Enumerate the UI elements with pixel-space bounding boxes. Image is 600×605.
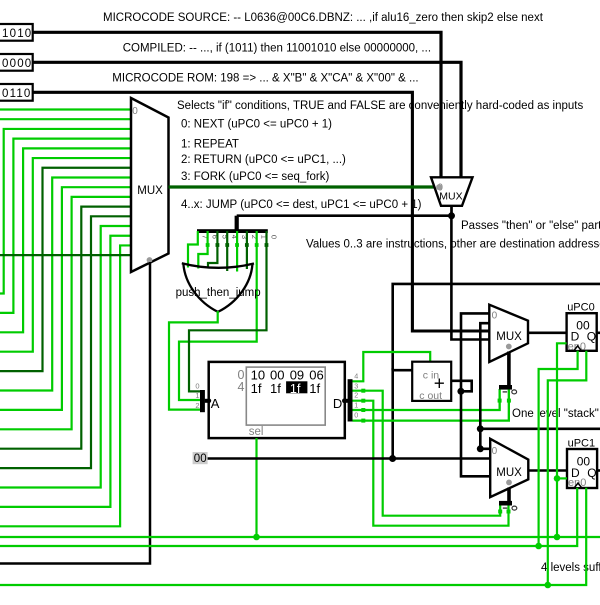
wire MUX1 input 13 (nested) xyxy=(0,236,131,507)
junction nub on bus drop 6 xyxy=(206,243,210,247)
wire uPC1.Q out xyxy=(597,469,600,472)
uPC1 clock triangle xyxy=(574,483,581,488)
junction dot incrementer output xyxy=(457,388,464,395)
box: microcode source bits 1010 xyxy=(0,24,33,41)
svg-text:2: RETURN (uPC0 <= uPC1, ...): 2: RETURN (uPC0 <= uPC1, ...) xyxy=(181,154,346,166)
wire uPC1.Q feedback vertical x480 xyxy=(480,323,490,449)
wire incrementer feed to D4 xyxy=(353,352,431,381)
long en0 line (y=537) xyxy=(0,536,600,538)
wire MUX1 select (black, to left edge bottom) xyxy=(0,262,150,564)
box: compiled bits 0000 xyxy=(0,54,33,71)
svg-text:Q: Q xyxy=(587,330,596,344)
wire MUX1 input 11 (nested) xyxy=(0,216,131,468)
wire MUX1 input 12 (nested) xyxy=(0,226,131,487)
junction nub on D wire xyxy=(361,399,365,403)
wire uPC+1 vertical x461: MUX3 in / MUX4 in xyxy=(461,313,490,476)
box: microcode ROM bits 0110 xyxy=(0,84,33,101)
nubs on MUX3 select wires xyxy=(498,399,502,403)
wire MUX4 output to uPC1.D xyxy=(528,469,567,472)
svg-text:D: D xyxy=(333,396,342,411)
MUX4 select bit marks xyxy=(503,507,508,509)
junction dot en0 branch to uPC1 xyxy=(554,475,561,482)
junction dot 00-net / x392 vertical xyxy=(389,455,396,462)
junction nub on D wire xyxy=(361,389,365,393)
wire MUX3 sel0 green xyxy=(508,390,510,422)
mux MUX2 body xyxy=(431,177,473,206)
wire MUX1 input 5 (nested) xyxy=(0,158,131,352)
MUX4 select gray dot xyxy=(506,480,512,486)
wire OR gate output to stack A2 xyxy=(169,311,218,410)
wire MUX1 input 1 xyxy=(0,118,131,120)
stack A port bar xyxy=(200,390,205,412)
wire en0 net: uPC0.en0 down to 537-line xyxy=(557,343,567,537)
svg-text:0: 0 xyxy=(132,106,138,117)
wire MUX1 input 6 (nested) xyxy=(0,168,131,371)
stack box outer xyxy=(209,362,345,438)
svg-text:0110: 0110 xyxy=(2,88,32,100)
svg-text:00: 00 xyxy=(194,453,207,465)
wire MUX1 input 9 (nested) xyxy=(0,197,131,429)
svg-text:MICROCODE ROM: 198 => ... & X": MICROCODE ROM: 198 => ... & X"B" & X"CA"… xyxy=(112,73,418,85)
svg-text:MUX: MUX xyxy=(137,185,163,197)
MUX3 select stub xyxy=(507,352,511,388)
wire bus drop 1 long to stack A1 xyxy=(179,231,257,400)
svg-text:1f: 1f xyxy=(290,381,301,396)
svg-text:2: 2 xyxy=(195,401,199,410)
svg-text:One level "stack": One level "stack" xyxy=(512,408,599,420)
long Q line (y=585) to uPC1 bottom xyxy=(0,488,586,585)
wire uPC0.Q out xyxy=(597,331,600,334)
wire from microcode ROM box to MUX3 input (net C) xyxy=(33,92,490,331)
svg-text:A: A xyxy=(211,396,220,411)
register uPC0 box xyxy=(567,313,597,351)
wire Q net: uPC0 bottom down-left-down xyxy=(548,351,587,585)
junction dot clk/546-line xyxy=(535,543,542,550)
or-gate push_then_jump body xyxy=(182,263,254,268)
wire bus drop 7 into OR gate (jog) xyxy=(188,231,198,268)
svg-text:Q: Q xyxy=(587,466,596,480)
svg-text:c out: c out xyxy=(419,390,442,402)
svg-text:1f: 1f xyxy=(270,381,281,396)
svg-text:1010: 1010 xyxy=(2,28,32,40)
register uPC1 box xyxy=(567,449,597,488)
wire 00-net to MUX4 input xyxy=(207,457,491,460)
wire bus drop 4 into OR gate (dark) xyxy=(226,231,228,271)
wire MUX1 input 3 (nested) xyxy=(0,139,131,313)
svg-text:4: 4 xyxy=(238,380,245,394)
svg-text:4 levels suffice: 4 levels suffice xyxy=(541,562,600,574)
stack highlighted cell bg xyxy=(286,381,307,393)
svg-text:Selects "if" conditions, TRUE: Selects "if" conditions, TRUE and FALSE … xyxy=(177,100,583,112)
junction nub on bus drop 4 xyxy=(225,243,229,247)
wire bus drop 5 into OR gate (jog, dark) xyxy=(208,231,217,269)
svg-text:Passes "then" or "else" part o: Passes "then" or "else" part of conditio… xyxy=(461,220,600,232)
svg-text:1: 1 xyxy=(195,391,199,400)
junction nub on bus drop 2 xyxy=(245,243,249,247)
svg-text:3: 3 xyxy=(354,382,358,391)
svg-text:0: 0 xyxy=(354,410,358,419)
wire net to uPC0 region (y=284) xyxy=(393,284,600,370)
svg-text:uPC1: uPC1 xyxy=(568,437,596,449)
wire stack sel down to en0 line xyxy=(255,438,257,537)
svg-text:MUX: MUX xyxy=(496,331,522,343)
wire MUX2 output down to MUX3 input xyxy=(451,216,489,340)
wire D0 to MUX3 sel0 xyxy=(353,389,509,421)
svg-text:3: FORK (uPC0 <= seq_fork): 3: FORK (uPC0 <= seq_fork) xyxy=(181,171,329,183)
junction dot Q/585-line xyxy=(545,582,552,589)
junction dot en0/537-line xyxy=(554,534,561,541)
wire bus drop 0 long to stack A0 (dark) xyxy=(189,231,267,391)
label 00 with gray bg xyxy=(193,452,208,464)
bus feed vertical xyxy=(235,216,239,230)
wire MUX1 input 2 (nested) xyxy=(0,129,131,294)
wire from compiled box to MUX2 top (net B) xyxy=(33,62,461,177)
svg-text:MUX: MUX xyxy=(496,467,522,479)
junction dot x480/y448.8 xyxy=(477,445,484,452)
junction nub on bus drop 0 xyxy=(265,243,269,247)
incrementer box xyxy=(412,362,451,401)
svg-text:Values 0..3 are instructions,: Values 0..3 are instructions, other are … xyxy=(306,239,600,251)
MUX1 select gray dot xyxy=(147,257,153,263)
svg-text:uPC0: uPC0 xyxy=(567,302,595,314)
wire D3 to MUX4 sel1 xyxy=(353,391,501,516)
MUX3 select gray dot xyxy=(506,344,512,350)
svg-text:0: 0 xyxy=(195,381,199,390)
svg-text:0000: 0000 xyxy=(2,58,32,70)
wire MUX1 input 4 (nested) xyxy=(0,148,131,332)
wire clk net: uPC0 clock down-left-down xyxy=(539,351,578,546)
MUX3 select bit marks (rotated 1 and 0) xyxy=(503,391,508,393)
svg-text:COMPILED: -- ..., if (1011) th: COMPILED: -- ..., if (1011) then 1100101… xyxy=(123,43,431,55)
uPC0 clock triangle xyxy=(574,346,581,351)
junction nub on bus drop 1 xyxy=(255,243,259,247)
svg-text:0: 0 xyxy=(269,235,278,239)
wire vertical x=392.7 down to 00-net xyxy=(391,368,394,459)
wire MUX1 input 8 (nested) xyxy=(0,187,131,410)
junction nub on bus drop 5 xyxy=(216,243,220,247)
bus bar xyxy=(197,229,268,233)
MUX4 select stub xyxy=(507,488,511,504)
wire D2 to MUX4 sel0 xyxy=(353,401,509,526)
junction nub on D wire xyxy=(361,419,365,423)
wire into c-in of incrementer xyxy=(392,369,413,372)
wire incrementer output jog to x461 vertical xyxy=(451,381,472,392)
wire bus drop 3 into OR gate xyxy=(236,231,238,272)
wire bus drop 2 into OR gate (dark) xyxy=(246,231,248,269)
MUX2 select gray dot xyxy=(436,184,442,190)
nubs on MUX4 select wires xyxy=(498,510,502,514)
wire MUX3 output to uPC0.D xyxy=(528,331,567,334)
svg-text:0: NEXT (uPC0 <= uPC0 + 1): 0: NEXT (uPC0 <= uPC0 + 1) xyxy=(181,119,332,131)
mux MUX1 body xyxy=(131,98,169,272)
wire MUX1 output (dark green thick) xyxy=(169,185,435,188)
wire branch to uPC1 area (y=428.8) xyxy=(480,427,600,430)
junction nub on D wire xyxy=(361,408,365,412)
svg-text:1f: 1f xyxy=(251,381,262,396)
svg-text:4..x: JUMP (uPC0 <= dest, uPC1: 4..x: JUMP (uPC0 <= dest, uPC1 <= uPC0 +… xyxy=(181,199,422,211)
junction nub on bus drop 3 xyxy=(235,243,239,247)
junction dot MUX2 output xyxy=(448,212,455,219)
junction dot x480/y428.8 xyxy=(477,425,484,432)
mux MUX4 body xyxy=(490,439,528,497)
svg-text:sel: sel xyxy=(249,426,264,438)
stack D port bar xyxy=(348,379,353,421)
mux MUX3 body xyxy=(489,305,528,362)
wire bus drop 6 into OR gate (jog) xyxy=(198,231,207,269)
wire D1 to MUX3 sel1 xyxy=(353,389,500,410)
long clk line (y=546) to uPC1 clock xyxy=(0,488,577,546)
svg-text:1: REPEAT: 1: REPEAT xyxy=(181,139,239,151)
wire MUX1 input 15 (dark, straight) xyxy=(0,254,131,256)
wire en0 branch into uPC1.en0 xyxy=(557,477,567,479)
wire MUX2 output to junction xyxy=(450,206,453,216)
stack box inner memory array xyxy=(246,367,325,425)
svg-text:0: 0 xyxy=(492,446,498,457)
wire MUX1 input 0 xyxy=(0,108,131,110)
wire MUX3 sel1 green xyxy=(499,390,501,412)
svg-text:0: 0 xyxy=(492,311,498,322)
svg-text:4: 4 xyxy=(354,372,358,381)
svg-text:MICROCODE SOURCE: -- L0636@00C: MICROCODE SOURCE: -- L0636@00C6.DBNZ: ..… xyxy=(103,12,544,24)
svg-text:1f: 1f xyxy=(309,381,320,396)
wire MUX1 input 7 (nested) xyxy=(0,177,131,390)
svg-text:push_then_jump: push_then_jump xyxy=(176,287,261,299)
wire from microcode source box to MUX2 top (net A) xyxy=(33,32,441,177)
wire MUX1 input 14 (nested) xyxy=(0,245,131,526)
junction dot sel/537-line xyxy=(253,534,260,541)
wire branch to bus bar xyxy=(237,214,452,217)
wire MUX1 input 10 (nested) xyxy=(0,207,131,449)
